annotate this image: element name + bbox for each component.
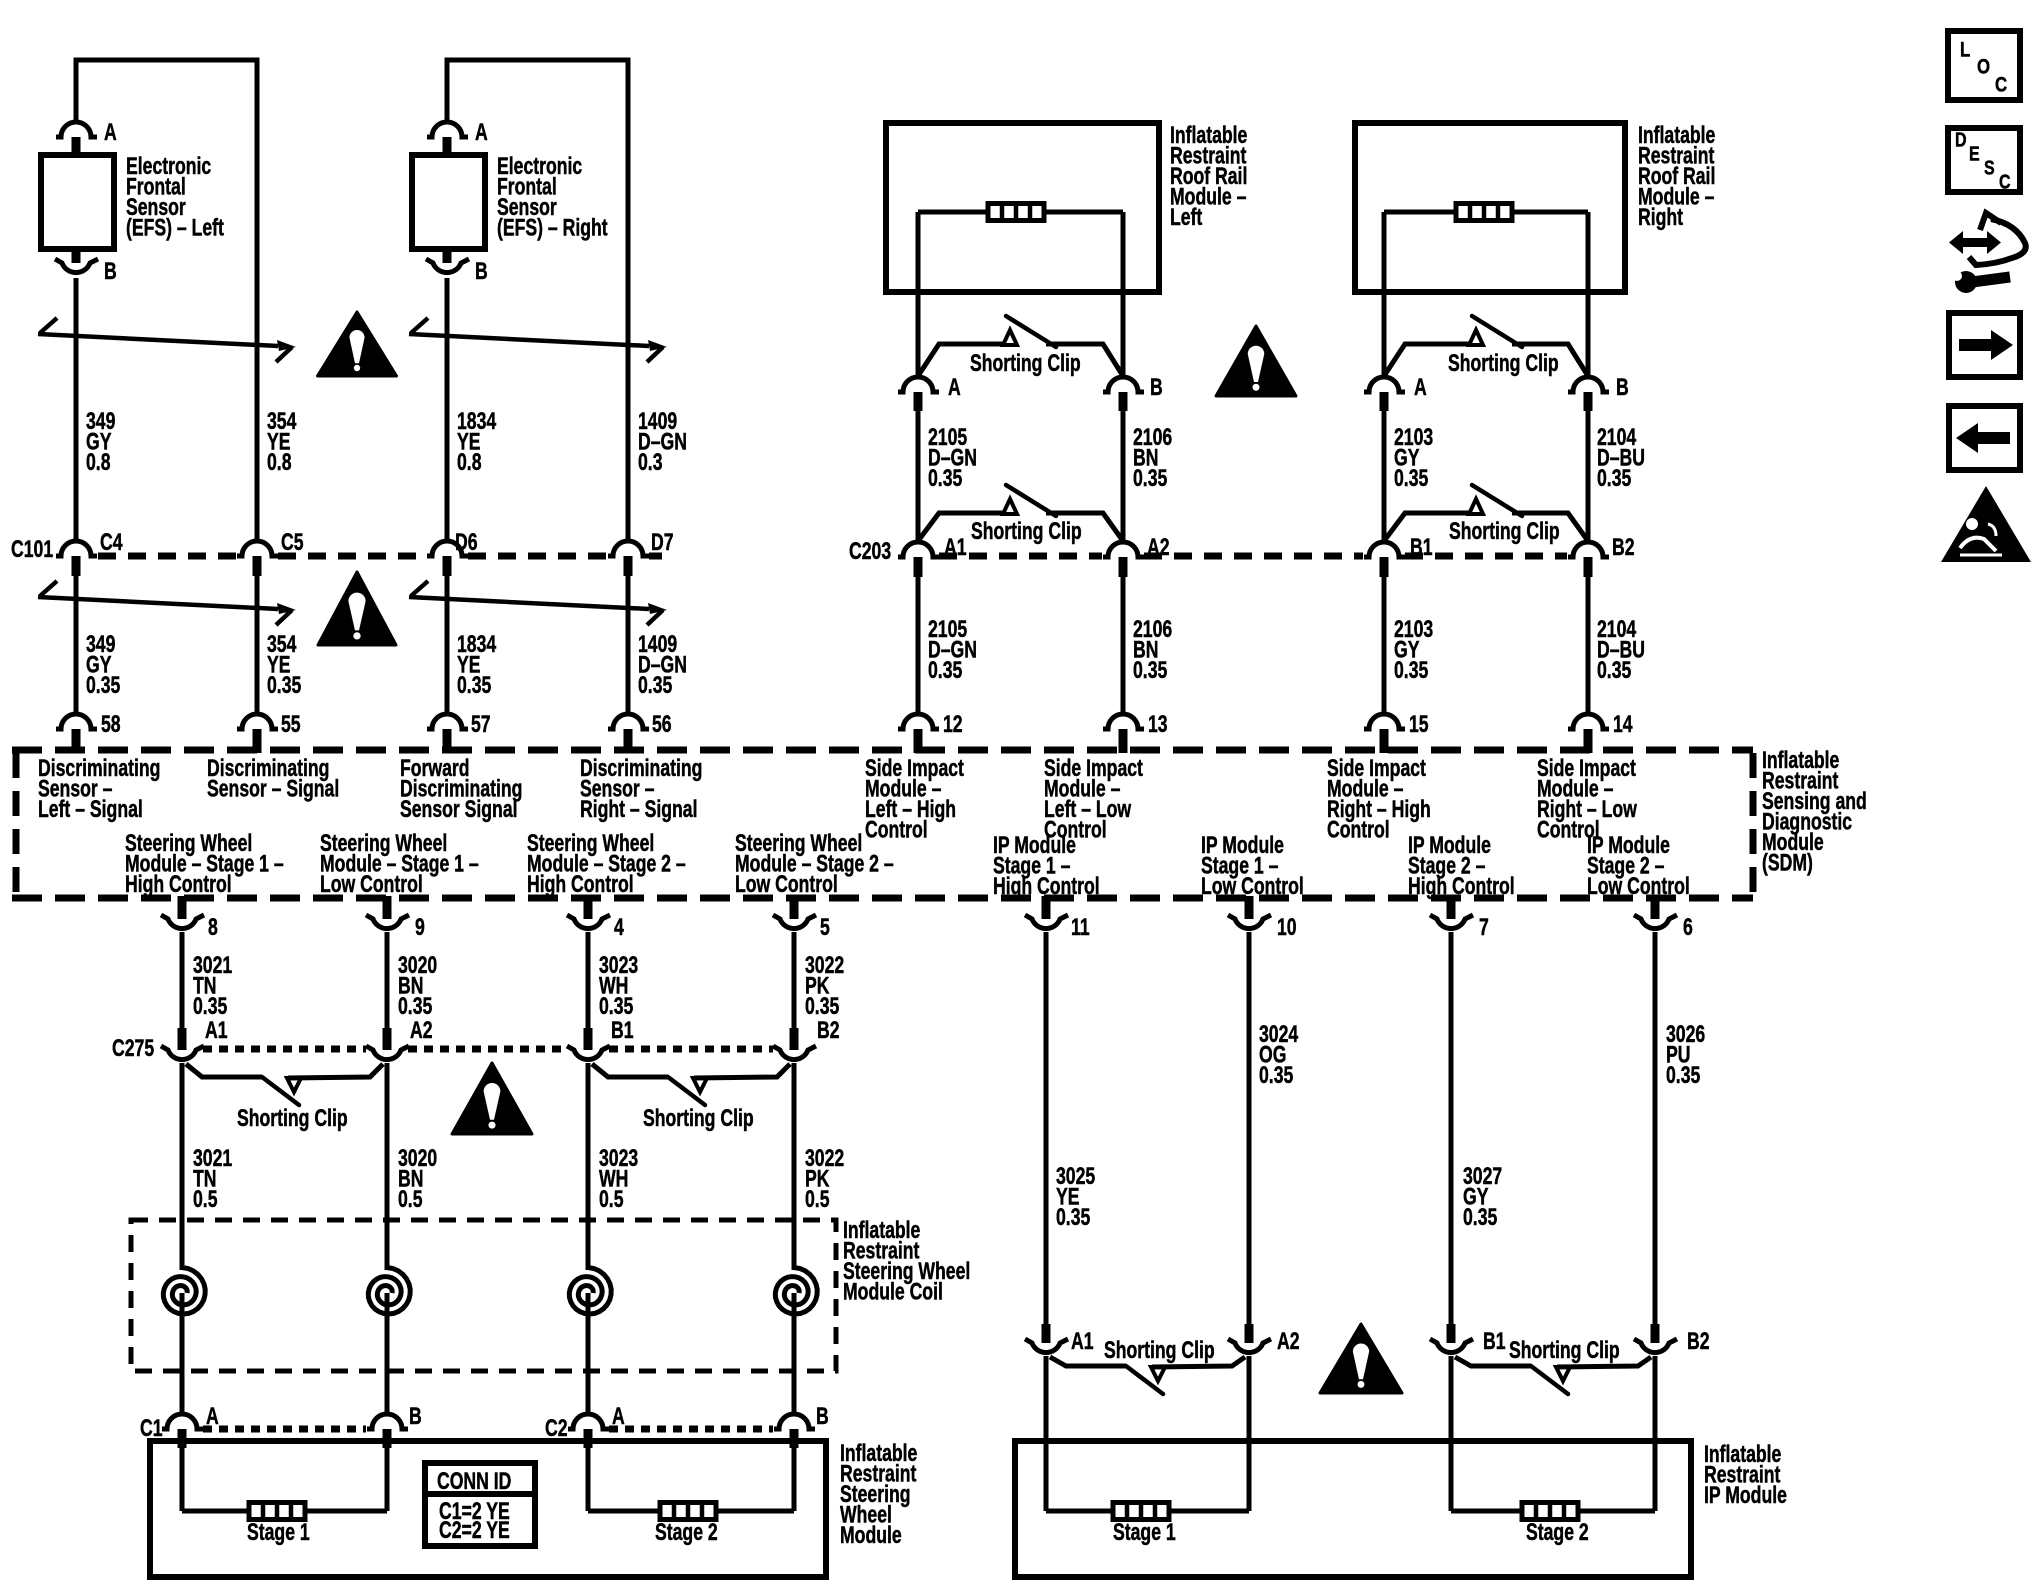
svg-text:9: 9 bbox=[415, 913, 425, 941]
svg-text:High Control: High Control bbox=[993, 872, 1100, 900]
svg-text:Left – Signal: Left – Signal bbox=[38, 795, 143, 823]
svg-text:B: B bbox=[1616, 373, 1629, 401]
svg-text:57: 57 bbox=[471, 710, 491, 738]
svg-text:55: 55 bbox=[281, 710, 301, 738]
svg-text:Stage 1: Stage 1 bbox=[247, 1518, 310, 1546]
svg-text:Low Control: Low Control bbox=[1587, 872, 1690, 900]
svg-text:B: B bbox=[1150, 373, 1163, 401]
svg-text:A: A bbox=[475, 118, 488, 146]
svg-text:11: 11 bbox=[1071, 913, 1090, 941]
svg-text:Sensor Signal: Sensor Signal bbox=[400, 795, 518, 823]
svg-text:Shorting Clip: Shorting Clip bbox=[643, 1104, 754, 1132]
svg-text:E: E bbox=[1969, 143, 1980, 165]
svg-text:A: A bbox=[1414, 373, 1427, 401]
svg-text:C101: C101 bbox=[11, 535, 53, 563]
svg-text:0.8: 0.8 bbox=[457, 448, 482, 476]
svg-text:C1: C1 bbox=[140, 1414, 163, 1442]
svg-text:0.35: 0.35 bbox=[1133, 656, 1167, 684]
svg-text:0.5: 0.5 bbox=[193, 1185, 218, 1213]
svg-text:C275: C275 bbox=[112, 1034, 154, 1062]
svg-text:15: 15 bbox=[1409, 710, 1429, 738]
svg-text:0.35: 0.35 bbox=[1394, 464, 1428, 492]
svg-text:O: O bbox=[1977, 56, 1990, 79]
svg-text:0.35: 0.35 bbox=[1394, 656, 1428, 684]
svg-text:A2: A2 bbox=[1277, 1327, 1300, 1355]
svg-text:B2: B2 bbox=[817, 1016, 840, 1044]
svg-text:High Control: High Control bbox=[527, 870, 634, 898]
svg-text:Shorting Clip: Shorting Clip bbox=[1104, 1336, 1215, 1364]
svg-text:Shorting Clip: Shorting Clip bbox=[971, 517, 1082, 545]
svg-text:B2: B2 bbox=[1612, 533, 1635, 561]
svg-text:High Control: High Control bbox=[1408, 872, 1515, 900]
svg-text:D6: D6 bbox=[455, 528, 478, 556]
svg-text:0.35: 0.35 bbox=[1597, 656, 1631, 684]
svg-text:0.5: 0.5 bbox=[805, 1185, 830, 1213]
svg-text:0.5: 0.5 bbox=[398, 1185, 423, 1213]
svg-text:A1: A1 bbox=[205, 1016, 228, 1044]
svg-text:(SDM): (SDM) bbox=[1762, 849, 1813, 877]
svg-text:Stage 2: Stage 2 bbox=[1526, 1518, 1589, 1546]
svg-text:Right – Signal: Right – Signal bbox=[580, 795, 698, 823]
svg-text:0.35: 0.35 bbox=[267, 671, 301, 699]
svg-text:S: S bbox=[1984, 157, 1995, 179]
svg-text:A: A bbox=[612, 1402, 625, 1430]
svg-text:Low Control: Low Control bbox=[320, 870, 423, 898]
svg-text:Shorting Clip: Shorting Clip bbox=[970, 349, 1081, 377]
svg-text:D: D bbox=[1955, 129, 1967, 151]
svg-text:B2: B2 bbox=[1687, 1327, 1710, 1355]
svg-text:58: 58 bbox=[101, 710, 121, 738]
svg-text:Module: Module bbox=[840, 1521, 902, 1549]
svg-text:A2: A2 bbox=[1147, 533, 1170, 561]
svg-text:10: 10 bbox=[1277, 913, 1297, 941]
svg-text:0.35: 0.35 bbox=[1133, 464, 1167, 492]
svg-text:Low Control: Low Control bbox=[735, 870, 838, 898]
svg-text:A: A bbox=[104, 118, 117, 146]
svg-text:B1: B1 bbox=[1483, 1327, 1506, 1355]
svg-text:0.35: 0.35 bbox=[928, 656, 962, 684]
svg-text:8: 8 bbox=[208, 913, 218, 941]
svg-text:Stage 1: Stage 1 bbox=[1113, 1518, 1176, 1546]
svg-text:Module Coil: Module Coil bbox=[843, 1278, 943, 1306]
svg-text:(EFS) – Right: (EFS) – Right bbox=[497, 214, 608, 242]
svg-text:Sensor – Signal: Sensor – Signal bbox=[207, 775, 339, 803]
svg-text:High Control: High Control bbox=[125, 870, 232, 898]
svg-text:L: L bbox=[1960, 39, 1971, 62]
svg-text:13: 13 bbox=[1148, 710, 1168, 738]
svg-text:Low Control: Low Control bbox=[1201, 872, 1304, 900]
svg-text:56: 56 bbox=[652, 710, 672, 738]
svg-text:B: B bbox=[409, 1402, 422, 1430]
svg-text:4: 4 bbox=[614, 913, 624, 941]
svg-text:0.35: 0.35 bbox=[928, 464, 962, 492]
svg-text:C: C bbox=[1999, 171, 2011, 193]
svg-text:Right: Right bbox=[1638, 203, 1683, 231]
svg-text:A2: A2 bbox=[410, 1016, 433, 1044]
svg-text:B1: B1 bbox=[611, 1016, 634, 1044]
svg-text:B1: B1 bbox=[1410, 533, 1433, 561]
svg-text:A1: A1 bbox=[1071, 1327, 1094, 1355]
svg-text:0.35: 0.35 bbox=[1666, 1061, 1700, 1089]
svg-text:B: B bbox=[816, 1402, 829, 1430]
svg-text:0.35: 0.35 bbox=[638, 671, 672, 699]
svg-text:7: 7 bbox=[1479, 913, 1489, 941]
svg-text:Shorting Clip: Shorting Clip bbox=[1449, 517, 1560, 545]
svg-text:D7: D7 bbox=[651, 528, 674, 556]
svg-text:C: C bbox=[1995, 74, 2007, 97]
svg-text:C203: C203 bbox=[849, 537, 891, 565]
svg-text:Shorting Clip: Shorting Clip bbox=[237, 1104, 348, 1132]
svg-text:Shorting Clip: Shorting Clip bbox=[1448, 349, 1559, 377]
svg-text:A: A bbox=[206, 1402, 219, 1430]
svg-text:0.35: 0.35 bbox=[1056, 1203, 1090, 1231]
svg-text:0.35: 0.35 bbox=[86, 671, 120, 699]
svg-text:C2: C2 bbox=[545, 1414, 568, 1442]
svg-text:B: B bbox=[104, 257, 117, 285]
svg-text:0.35: 0.35 bbox=[1259, 1061, 1293, 1089]
svg-text:Left: Left bbox=[1170, 203, 1202, 231]
svg-text:A1: A1 bbox=[944, 533, 967, 561]
svg-text:C4: C4 bbox=[100, 528, 123, 556]
svg-text:Shorting Clip: Shorting Clip bbox=[1509, 1336, 1620, 1364]
svg-text:0.35: 0.35 bbox=[1463, 1203, 1497, 1231]
svg-text:0.3: 0.3 bbox=[638, 448, 663, 476]
svg-text:0.8: 0.8 bbox=[267, 448, 292, 476]
svg-text:B: B bbox=[475, 257, 488, 285]
svg-text:A: A bbox=[948, 373, 961, 401]
svg-text:(EFS) – Left: (EFS) – Left bbox=[126, 214, 224, 242]
svg-text:C5: C5 bbox=[281, 528, 304, 556]
svg-text:14: 14 bbox=[1613, 710, 1633, 738]
svg-text:0.5: 0.5 bbox=[599, 1185, 624, 1213]
svg-text:C2=2 YE: C2=2 YE bbox=[439, 1516, 510, 1544]
svg-text:Stage 2: Stage 2 bbox=[655, 1518, 718, 1546]
svg-text:6: 6 bbox=[1683, 913, 1693, 941]
svg-text:0.35: 0.35 bbox=[1597, 464, 1631, 492]
svg-text:Control: Control bbox=[1327, 816, 1390, 844]
svg-text:0.8: 0.8 bbox=[86, 448, 111, 476]
svg-text:0.35: 0.35 bbox=[457, 671, 491, 699]
svg-text:CONN ID: CONN ID bbox=[437, 1467, 511, 1495]
svg-text:5: 5 bbox=[820, 913, 830, 941]
svg-text:12: 12 bbox=[943, 710, 963, 738]
svg-text:Control: Control bbox=[865, 816, 928, 844]
svg-text:IP Module: IP Module bbox=[1704, 1481, 1787, 1509]
